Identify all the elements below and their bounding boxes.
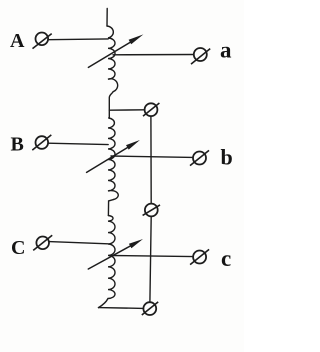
terminal c circle bbox=[190, 249, 209, 264]
terminal t2 circle (right branch middle) bbox=[143, 204, 160, 217]
winding W1 top lead bbox=[106, 9, 108, 27]
wire terminal B to W2 bbox=[48, 143, 108, 144]
winding W1 (phase A coil) bbox=[107, 26, 118, 92]
wiper arrow 1 (phase A) bbox=[88, 34, 143, 67]
svg-text:A: A bbox=[10, 30, 25, 52]
winding W2 (phase B coil) bbox=[108, 118, 118, 199]
terminal t3 circle (right branch bottom) bbox=[142, 302, 158, 315]
wire right branch t1 to t2 bbox=[150, 116, 152, 204]
terminal A circle bbox=[33, 33, 52, 49]
svg-text:c: c bbox=[221, 246, 231, 271]
wire terminal C to W3 bbox=[49, 242, 108, 244]
terminal t1 circle (right branch top) bbox=[143, 103, 159, 116]
wire W3 bottom to terminal t3 bbox=[99, 307, 144, 310]
svg-text:a: a bbox=[220, 38, 232, 63]
wire wiper3 to terminal c bbox=[111, 256, 194, 257]
terminal b circle bbox=[190, 150, 209, 165]
terminal a circle bbox=[191, 48, 210, 64]
wiper arrow 3 (phase C) bbox=[88, 239, 143, 269]
wire wiper1 to terminal a bbox=[113, 54, 194, 56]
terminal B circle bbox=[32, 135, 51, 150]
wiper arrow 2 (phase B) bbox=[87, 140, 140, 172]
winding W3 (phase C coil) bbox=[99, 216, 116, 308]
wire right branch t2 to t3 bbox=[150, 216, 151, 302]
wire terminal A to W1 bbox=[48, 38, 108, 41]
svg-text:C: C bbox=[11, 237, 25, 259]
svg-text:B: B bbox=[11, 134, 24, 156]
wire W1 bottom to W2 top bbox=[109, 92, 113, 118]
wire wiper2 to terminal b bbox=[111, 156, 193, 157]
wire W1 bottom tap to terminal t1 bbox=[109, 109, 144, 111]
terminal C circle bbox=[33, 235, 52, 250]
wire W2 bottom to W3 top bbox=[108, 199, 113, 215]
svg-text:b: b bbox=[221, 145, 233, 170]
